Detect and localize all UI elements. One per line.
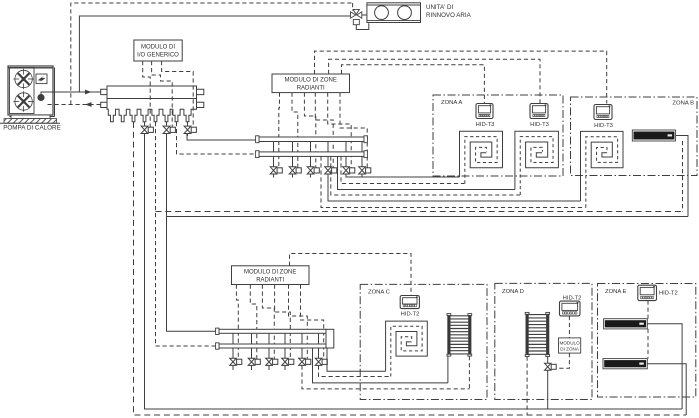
svg-text:RADIANTI: RADIANTI bbox=[297, 86, 325, 92]
svg-text:RINNOVO ARIA: RINNOVO ARIA bbox=[426, 12, 472, 19]
svg-text:I/O GENERICO: I/O GENERICO bbox=[137, 53, 179, 59]
svg-text:UNITA' DI: UNITA' DI bbox=[426, 4, 453, 11]
svg-text:ZONA B: ZONA B bbox=[672, 101, 694, 107]
svg-text:HID-T2: HID-T2 bbox=[659, 291, 678, 297]
svg-text:HID-T2: HID-T2 bbox=[401, 312, 420, 318]
svg-text:RADIANTI: RADIANTI bbox=[256, 278, 284, 284]
svg-text:DI ZONA: DI ZONA bbox=[560, 347, 580, 352]
svg-text:HID-T3: HID-T3 bbox=[476, 122, 495, 128]
svg-text:HID-T3: HID-T3 bbox=[530, 122, 549, 128]
svg-text:POMPA DI CALORE: POMPA DI CALORE bbox=[3, 125, 61, 132]
svg-text:ZONA E: ZONA E bbox=[605, 289, 627, 295]
svg-text:MODULO DI ZONE: MODULO DI ZONE bbox=[244, 270, 296, 276]
svg-text:ZONA C: ZONA C bbox=[368, 289, 391, 295]
svg-text:HID-T3: HID-T3 bbox=[594, 123, 613, 129]
svg-text:ZONA D: ZONA D bbox=[502, 289, 524, 295]
svg-text:MODULO DI ZONE: MODULO DI ZONE bbox=[285, 78, 337, 84]
svg-text:ZONA A: ZONA A bbox=[441, 100, 462, 106]
svg-text:MODULO: MODULO bbox=[560, 340, 581, 345]
svg-text:MODULO DI: MODULO DI bbox=[141, 45, 175, 51]
